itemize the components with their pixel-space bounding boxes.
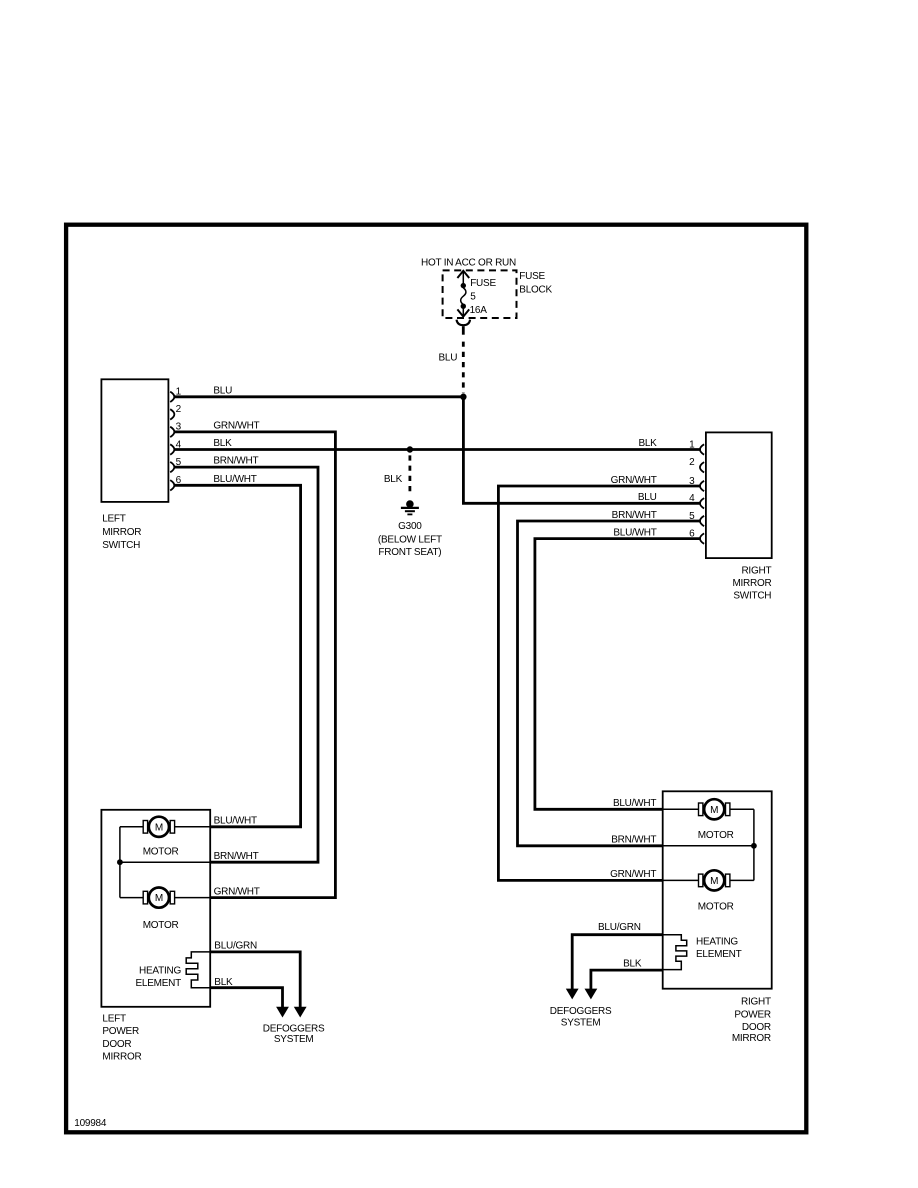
svg-text:BLK: BLK bbox=[623, 958, 642, 969]
svg-text:HEATING: HEATING bbox=[139, 965, 181, 976]
fuse squiggle bbox=[461, 288, 466, 305]
right switch pin 5 connector bbox=[700, 516, 704, 526]
svg-text:BLU/WHT: BLU/WHT bbox=[613, 798, 656, 809]
right mirror switch box bbox=[706, 432, 772, 558]
motor M1 right bbox=[704, 799, 724, 819]
svg-text:ELEMENT: ELEMENT bbox=[696, 949, 742, 960]
svg-text:HOT IN ACC OR RUN: HOT IN ACC OR RUN bbox=[421, 257, 516, 268]
border frame bbox=[66, 225, 806, 1133]
wire BRN/WHT internal bbox=[120, 861, 210, 863]
motor M1 left bbox=[149, 817, 169, 837]
left mirror switch box bbox=[101, 379, 168, 502]
svg-text:BRN/WHT: BRN/WHT bbox=[213, 456, 258, 467]
left switch pin 5 connector bbox=[170, 462, 174, 472]
wire GRN/WHT right switch pin3 down to right mirror motor2 bbox=[498, 486, 701, 880]
svg-text:LEFT: LEFT bbox=[102, 513, 126, 524]
node BLK ground tap dot bbox=[407, 446, 413, 452]
wire BLU/GRN right mirror to defoggers bbox=[572, 935, 663, 990]
svg-text:BRN/WHT: BRN/WHT bbox=[612, 510, 657, 521]
fuse block dashed box bbox=[443, 270, 517, 318]
right switch pin 3 connector bbox=[700, 481, 704, 491]
svg-text:DOOR: DOOR bbox=[742, 1022, 771, 1033]
wire GRN/WHT left switch pin3 down to left mirror motor2 bbox=[175, 432, 336, 898]
left switch pin 6 connector bbox=[170, 480, 174, 490]
node BLU junction dot bbox=[460, 394, 466, 400]
svg-text:5: 5 bbox=[470, 292, 476, 303]
svg-text:MIRROR: MIRROR bbox=[102, 1051, 141, 1062]
svg-text:HEATING: HEATING bbox=[696, 937, 738, 948]
wire motor1 left lead bbox=[120, 826, 143, 828]
wire BLU/GRN left mirror to defoggers bbox=[210, 952, 300, 1008]
svg-text:FUSE: FUSE bbox=[470, 278, 496, 289]
arrow defoggers left BLK bbox=[276, 1007, 289, 1018]
svg-text:GRN/WHT: GRN/WHT bbox=[610, 869, 656, 880]
fuse element lead bbox=[462, 272, 464, 316]
svg-text:BLU/GRN: BLU/GRN bbox=[598, 922, 641, 933]
right switch pin 4 connector bbox=[700, 498, 704, 508]
svg-text:BLU: BLU bbox=[438, 353, 457, 364]
svg-text:(BELOW LEFT: (BELOW LEFT bbox=[378, 535, 442, 546]
wire motor1 left lead bbox=[663, 808, 699, 810]
fuse arrow down bbox=[457, 309, 469, 316]
arrow defoggers right BLU/GRN bbox=[566, 989, 579, 1000]
svg-text:MIRROR: MIRROR bbox=[102, 527, 141, 538]
svg-text:DEFOGGERS: DEFOGGERS bbox=[550, 1006, 612, 1017]
svg-text:MOTOR: MOTOR bbox=[143, 920, 179, 931]
right switch pin 6 connector bbox=[700, 533, 704, 543]
svg-text:BLK: BLK bbox=[638, 438, 657, 449]
connector cup below fuse block bbox=[457, 320, 471, 326]
svg-text:109984: 109984 bbox=[74, 1118, 107, 1129]
wire motor2 left lead bbox=[120, 897, 143, 899]
motor M2 left bbox=[149, 888, 169, 908]
left switch pin 4 connector bbox=[170, 444, 174, 454]
left switch pin 3 connector bbox=[170, 427, 174, 437]
svg-text:LEFT: LEFT bbox=[102, 1014, 126, 1025]
fuse terminal dot bottom bbox=[461, 304, 466, 309]
wire motor1 right lead bbox=[730, 808, 754, 810]
arrow defoggers right BLK bbox=[585, 989, 598, 1000]
ground G300 symbol bbox=[406, 500, 414, 508]
wire motor2 right lead bbox=[730, 879, 754, 881]
right switch pin 2 connector bbox=[700, 462, 704, 472]
svg-text:FRONT SEAT): FRONT SEAT) bbox=[378, 547, 441, 558]
svg-text:BRN/WHT: BRN/WHT bbox=[214, 851, 259, 862]
wire BLK left mirror to defoggers bbox=[210, 988, 282, 1008]
svg-text:BRN/WHT: BRN/WHT bbox=[611, 835, 656, 846]
svg-text:BLU/WHT: BLU/WHT bbox=[214, 816, 257, 827]
left switch pin 1 connector bbox=[170, 392, 174, 402]
wire BLU/WHT left switch pin6 down to left mirror motor1 bbox=[175, 485, 301, 827]
right power door mirror box bbox=[663, 791, 772, 988]
fuse arrow up bbox=[457, 271, 469, 278]
wire motor1 right lead bbox=[175, 826, 211, 828]
wire right mirror internal vertical bbox=[753, 809, 755, 880]
svg-text:BLK: BLK bbox=[214, 977, 233, 988]
wire BLK right mirror to defoggers bbox=[591, 970, 663, 989]
svg-text:FUSE: FUSE bbox=[519, 271, 545, 282]
svg-text:M: M bbox=[710, 876, 718, 887]
wire BLU/WHT right switch pin6 down to right mirror motor1 bbox=[535, 539, 701, 810]
heating element right bbox=[663, 935, 687, 970]
wire motor2 left lead bbox=[663, 879, 699, 881]
svg-text:G300: G300 bbox=[398, 521, 422, 532]
wire stub below connector bbox=[462, 326, 465, 335]
wire BLK left switch pin4 to right switch pin1 bbox=[175, 448, 701, 451]
svg-text:4: 4 bbox=[689, 493, 695, 504]
svg-text:1: 1 bbox=[689, 439, 695, 450]
svg-text:BLU: BLU bbox=[638, 492, 657, 503]
right switch pin 1 connector bbox=[700, 444, 704, 454]
wire BLU dashed from fuse bbox=[462, 342, 465, 394]
svg-text:GRN/WHT: GRN/WHT bbox=[611, 475, 657, 486]
svg-text:GRN/WHT: GRN/WHT bbox=[214, 886, 260, 897]
node dot left mirror bbox=[117, 859, 123, 865]
svg-text:M: M bbox=[710, 805, 718, 816]
svg-text:M: M bbox=[155, 893, 163, 904]
svg-text:DOOR: DOOR bbox=[102, 1039, 131, 1050]
svg-text:BLOCK: BLOCK bbox=[519, 284, 552, 295]
svg-text:MOTOR: MOTOR bbox=[698, 901, 734, 912]
wire BRN/WHT left switch pin5 down to left mirror bbox=[175, 467, 318, 862]
svg-text:POWER: POWER bbox=[734, 1010, 771, 1021]
svg-text:BLU/GRN: BLU/GRN bbox=[214, 941, 257, 952]
node dot right mirror bbox=[751, 843, 757, 849]
svg-text:2: 2 bbox=[176, 404, 182, 415]
svg-text:SYSTEM: SYSTEM bbox=[561, 1017, 601, 1028]
svg-text:RIGHT: RIGHT bbox=[741, 997, 771, 1008]
svg-text:ELEMENT: ELEMENT bbox=[136, 978, 182, 989]
svg-text:BLK: BLK bbox=[213, 438, 232, 449]
wire BRN/WHT right switch pin5 down to right mirror bbox=[518, 521, 702, 846]
motor M2 right bbox=[704, 870, 724, 890]
wire BLU left switch pin1 to junction bbox=[175, 395, 464, 398]
svg-text:MOTOR: MOTOR bbox=[698, 830, 734, 841]
left power door mirror box bbox=[101, 810, 210, 1007]
svg-text:M: M bbox=[155, 822, 163, 833]
svg-text:GRN/WHT: GRN/WHT bbox=[213, 421, 259, 432]
wire motor2 right lead bbox=[175, 897, 211, 899]
svg-text:BLU/WHT: BLU/WHT bbox=[213, 474, 256, 485]
svg-text:MIRROR: MIRROR bbox=[732, 578, 771, 589]
svg-text:BLK: BLK bbox=[384, 474, 403, 485]
wire BLU junction down to right switch pin4 bbox=[463, 397, 701, 504]
svg-text:SWITCH: SWITCH bbox=[733, 591, 771, 602]
svg-text:MOTOR: MOTOR bbox=[143, 847, 179, 858]
left switch pin 2 connector bbox=[170, 409, 174, 419]
svg-text:POWER: POWER bbox=[102, 1026, 139, 1037]
fuse terminal dot top bbox=[461, 283, 466, 288]
wire left mirror internal vertical bbox=[119, 827, 121, 898]
wire BLK dashed to ground bbox=[408, 455, 411, 496]
svg-text:2: 2 bbox=[689, 457, 695, 468]
svg-text:RIGHT: RIGHT bbox=[741, 565, 771, 576]
svg-text:SWITCH: SWITCH bbox=[102, 540, 140, 551]
svg-text:BLU/WHT: BLU/WHT bbox=[613, 527, 656, 538]
svg-text:16A: 16A bbox=[470, 305, 488, 316]
svg-text:DEFOGGERS: DEFOGGERS bbox=[263, 1023, 325, 1034]
wire BRN/WHT internal bbox=[663, 845, 754, 847]
svg-text:BLU: BLU bbox=[213, 385, 232, 396]
heating element left bbox=[186, 952, 210, 988]
svg-text:MIRROR: MIRROR bbox=[732, 1033, 771, 1044]
svg-text:SYSTEM: SYSTEM bbox=[274, 1034, 314, 1045]
arrow defoggers left BLU/GRN bbox=[294, 1007, 307, 1018]
